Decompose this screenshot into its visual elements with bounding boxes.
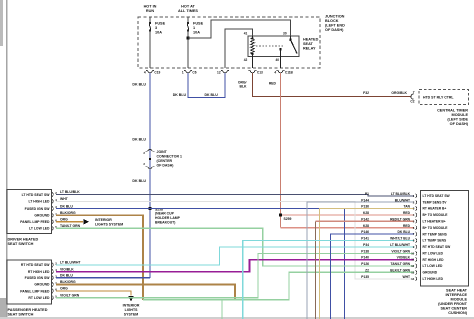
label: passenger heated seat switch bbox=[8, 308, 48, 317]
svg-text:LT TEMP SENS: LT TEMP SENS bbox=[423, 239, 447, 243]
svg-text:VIO/LT GRN: VIO/LT GRN bbox=[60, 293, 80, 297]
svg-text:RED: RED bbox=[403, 211, 411, 215]
svg-text:7: 7 bbox=[413, 90, 415, 94]
svg-text:S258: S258 bbox=[155, 207, 163, 211]
svg-text:2: 2 bbox=[413, 200, 415, 204]
svg-text:LT BLU/BLK: LT BLU/BLK bbox=[391, 192, 411, 196]
svg-text:BLK/ORG: BLK/ORG bbox=[60, 211, 76, 215]
svg-text:(LEFT END: (LEFT END bbox=[325, 24, 345, 28]
svg-text:GROUND: GROUND bbox=[34, 283, 50, 287]
label: driver heated seat switch bbox=[8, 238, 39, 247]
wire ORG: passenger panel lamp feed down to interior lights bbox=[56, 287, 131, 296]
svg-text:RT TEMP SENS: RT TEMP SENS bbox=[423, 232, 448, 236]
svg-text:HOT AT: HOT AT bbox=[181, 5, 195, 9]
wire LT BLU/BLK: driver switch to module pin 1 bbox=[56, 190, 414, 196]
svg-text:P140: P140 bbox=[361, 256, 369, 260]
svg-text:OF DASH): OF DASH) bbox=[325, 28, 344, 32]
svg-text:LIGHTS SYSTEM: LIGHTS SYSTEM bbox=[95, 222, 123, 226]
svg-text:P141: P141 bbox=[361, 237, 369, 241]
svg-text:DK BLU: DK BLU bbox=[60, 274, 73, 278]
svg-text:1: 1 bbox=[413, 194, 415, 198]
svg-text:BLK/LT GRN: BLK/LT GRN bbox=[390, 269, 410, 273]
svg-text:LT HTD SEAT SW: LT HTD SEAT SW bbox=[423, 194, 451, 198]
arrow: interior lights system (passenger) bbox=[123, 296, 140, 317]
svg-text:RELAY: RELAY bbox=[303, 47, 316, 51]
svg-text:LT BLU/WHT: LT BLU/WHT bbox=[60, 261, 81, 265]
module pin 5: RED/LT GRN / LT HEATER B+ bbox=[361, 217, 446, 223]
node S258 bbox=[149, 207, 181, 224]
svg-text:P34: P34 bbox=[363, 243, 369, 247]
svg-text:DK BLU: DK BLU bbox=[132, 83, 146, 87]
module pin 2: BLU/WHT / TEMP SENS 5V bbox=[361, 198, 447, 204]
svg-text:7: 7 bbox=[413, 232, 415, 236]
svg-text:DK BLU: DK BLU bbox=[60, 204, 73, 208]
svg-text:BLK/ORG: BLK/ORG bbox=[60, 280, 76, 284]
svg-text:40: 40 bbox=[275, 58, 279, 62]
node: HOT IN RUN bbox=[144, 5, 157, 13]
wire BLU/WHT: module pin 2 temp sens down off page bbox=[307, 202, 414, 319]
node: HOT AT ALL TIMES bbox=[178, 5, 198, 13]
wire DK BLU: driver switch fused ign to S258 bbox=[56, 204, 150, 208]
svg-text:PASSENGER HEATED: PASSENGER HEATED bbox=[8, 308, 48, 312]
svg-text:P126: P126 bbox=[361, 262, 369, 266]
connector pin 12 bbox=[217, 70, 229, 74]
svg-text:RED: RED bbox=[269, 82, 277, 86]
svg-text:3: 3 bbox=[155, 26, 157, 30]
svg-text:INTERIOR: INTERIOR bbox=[95, 218, 112, 222]
connector pin 7 C2 (central timer module) bbox=[410, 90, 414, 103]
svg-text:INTERIOR: INTERIOR bbox=[123, 304, 140, 308]
svg-text:CENTRAL TIMER: CENTRAL TIMER bbox=[437, 109, 468, 113]
svg-text:OF DASH): OF DASH) bbox=[450, 122, 469, 126]
svg-text:41: 41 bbox=[244, 32, 248, 36]
svg-text:1: 1 bbox=[182, 70, 184, 74]
svg-text:C6: C6 bbox=[192, 70, 196, 74]
svg-text:Z2: Z2 bbox=[365, 269, 369, 273]
svg-text:SEAT CENTER: SEAT CENTER bbox=[440, 307, 467, 311]
module pin 14: WHT / LT HIGH LED bbox=[361, 275, 443, 281]
central timer module (dashed box) bbox=[419, 90, 469, 105]
svg-text:12: 12 bbox=[217, 70, 221, 74]
wire DK BLU loop: pin 1 C6 down, right, up to pin 12 bbox=[173, 73, 225, 98]
svg-text:TAN: TAN bbox=[403, 205, 410, 209]
svg-text:RED/LT GRN: RED/LT GRN bbox=[390, 217, 411, 221]
label: seat heat interface module bbox=[438, 289, 468, 316]
svg-text:LT HIGH LED: LT HIGH LED bbox=[423, 277, 444, 281]
svg-text:TEMP SENS 5V: TEMP SENS 5V bbox=[423, 200, 448, 204]
svg-text:RT LOW LED: RT LOW LED bbox=[28, 296, 50, 300]
svg-text:TAN/LT GRN: TAN/LT GRN bbox=[391, 262, 411, 266]
svg-text:B+ TO MODULE: B+ TO MODULE bbox=[423, 213, 449, 217]
svg-text:BREAKOUT): BREAKOUT) bbox=[155, 221, 175, 225]
svg-text:B+ TO MODULE: B+ TO MODULE bbox=[423, 226, 449, 230]
module pin 3: TAN / RT HEATER B+ bbox=[361, 205, 446, 211]
wire BLK/LT GRN: ground bus to module pin 13 bbox=[143, 272, 414, 299]
wire TAN: module pin 3 RT heater down off page bbox=[320, 209, 415, 319]
fuse F3 (FUSE 3 10A, hot in run) bbox=[149, 17, 166, 35]
svg-text:FUSE: FUSE bbox=[193, 22, 204, 26]
wire DK BLU: S258 feed across to right and down off page bbox=[150, 209, 345, 319]
module pin 13: BLK/LT GRN / GROUND bbox=[365, 269, 438, 275]
svg-text:RT HTD SEAT SW: RT HTD SEAT SW bbox=[21, 263, 50, 267]
joint connector 1 bbox=[143, 150, 182, 169]
wire ORG/BLK: relay coil to central timer module bbox=[238, 73, 411, 97]
svg-text:DK BLU: DK BLU bbox=[132, 138, 146, 142]
svg-text:BLOCK: BLOCK bbox=[325, 19, 339, 23]
svg-text:RT HIGH LED: RT HIGH LED bbox=[423, 258, 445, 262]
svg-text:P135: P135 bbox=[361, 275, 369, 279]
module pin 7: DK BLU / RT TEMP SENS bbox=[361, 230, 447, 236]
svg-text:F32: F32 bbox=[363, 91, 369, 95]
svg-text:42: 42 bbox=[244, 58, 248, 62]
svg-text:RT LOW LED: RT LOW LED bbox=[423, 252, 444, 256]
svg-text:LT BLU/BLK: LT BLU/BLK bbox=[60, 190, 80, 194]
label: central timer module bbox=[437, 109, 469, 127]
arrow: interior lights system (driver) bbox=[84, 218, 124, 227]
passenger switch pin brackets bbox=[52, 262, 57, 300]
svg-text:LIGHTS: LIGHTS bbox=[125, 308, 138, 312]
wire VIO/LT GRN: passenger RT LOW LED to module pin 10 bbox=[56, 253, 414, 297]
svg-text:WHT: WHT bbox=[60, 197, 69, 201]
svg-text:5: 5 bbox=[413, 219, 415, 223]
svg-text:DK BLU: DK BLU bbox=[132, 179, 146, 183]
svg-text:C19: C19 bbox=[154, 70, 160, 74]
svg-text:CUSHION): CUSHION) bbox=[448, 311, 468, 315]
connector pin 1 C6 bbox=[182, 70, 197, 74]
svg-text:HOLDER LAMP: HOLDER LAMP bbox=[155, 216, 181, 220]
svg-text:K28: K28 bbox=[363, 211, 369, 215]
driver switch pin brackets bbox=[52, 191, 57, 230]
wire TAN/LT GRN: driver LT LOW LED to module pin 12 bbox=[56, 224, 414, 266]
fuse F1 (FUSE 1 10A, hot at all times) bbox=[187, 17, 204, 35]
svg-text:C11B: C11B bbox=[285, 70, 294, 74]
svg-text:P138: P138 bbox=[361, 249, 369, 253]
svg-text:10A: 10A bbox=[155, 31, 162, 35]
wire RED: branch to module pin 4 (B+ TO MODULE) bbox=[281, 214, 415, 216]
svg-text:SEAT: SEAT bbox=[303, 42, 314, 46]
wire BLK/ORG: driver switch ground leg bbox=[56, 211, 143, 300]
svg-text:30: 30 bbox=[283, 32, 287, 36]
relay: heated seat relay (box) bbox=[248, 36, 299, 57]
svg-text:S259: S259 bbox=[284, 217, 292, 221]
svg-text:10: 10 bbox=[411, 251, 415, 255]
node S259 bbox=[279, 214, 291, 221]
connector pin 4 C19 bbox=[144, 70, 161, 74]
wire DK BLU: module pin 7 RT temp sens down off page bbox=[331, 234, 415, 319]
module pin 9: LT BLU/WHT / RT HTD SEAT SW bbox=[363, 243, 451, 249]
svg-text:2: 2 bbox=[143, 151, 145, 155]
svg-text:HEATED: HEATED bbox=[303, 38, 319, 42]
svg-text:3: 3 bbox=[413, 207, 415, 211]
svg-text:GROUND: GROUND bbox=[34, 214, 50, 218]
svg-text:(CENTER: (CENTER bbox=[157, 159, 173, 163]
junction block (dashed box) bbox=[138, 17, 320, 68]
svg-text:BLK: BLK bbox=[240, 85, 248, 89]
passenger heated seat switch (box) bbox=[7, 260, 52, 304]
svg-text:10A: 10A bbox=[193, 31, 200, 35]
svg-text:FUSED IGN SW: FUSED IGN SW bbox=[25, 276, 51, 280]
svg-text:WHT/LT BLU: WHT/LT BLU bbox=[390, 237, 411, 241]
svg-text:ORG/BLK: ORG/BLK bbox=[391, 91, 407, 95]
svg-text:LT LOW LED: LT LOW LED bbox=[29, 227, 50, 231]
wire: relay pin 40 to connector C11B bbox=[280, 57, 282, 69]
svg-text:(LEFT SIDE: (LEFT SIDE bbox=[447, 118, 468, 122]
svg-text:1: 1 bbox=[193, 26, 195, 30]
wire: ground stub down off page bbox=[221, 300, 223, 319]
svg-text:ORG: ORG bbox=[60, 287, 68, 291]
svg-text:LT HTD SEAT SW: LT HTD SEAT SW bbox=[22, 193, 51, 197]
module pin 8: WHT/LT BLU / LT TEMP SENS bbox=[361, 237, 447, 243]
wire WHT: driver switch LT HIGH LED to module pin 14 bbox=[56, 197, 414, 279]
svg-text:P144: P144 bbox=[361, 198, 369, 202]
svg-text:2: 2 bbox=[143, 162, 145, 166]
svg-text:6: 6 bbox=[413, 226, 415, 230]
svg-text:RT HTD SEAT SW: RT HTD SEAT SW bbox=[423, 245, 452, 249]
relay pin 42 label bbox=[244, 58, 248, 62]
svg-text:P136: P136 bbox=[361, 205, 369, 209]
wire DK BLU: passenger fused ign to main feed bbox=[56, 274, 150, 278]
svg-text:DK BLU: DK BLU bbox=[173, 93, 187, 97]
svg-text:RT HEATER B+: RT HEATER B+ bbox=[423, 207, 447, 211]
svg-text:GROUND: GROUND bbox=[423, 271, 438, 275]
svg-text:DRIVER HEATED: DRIVER HEATED bbox=[8, 238, 39, 242]
passenger switch pin labels bbox=[20, 263, 50, 300]
svg-text:4: 4 bbox=[144, 70, 146, 74]
svg-text:TAN/LT GRN: TAN/LT GRN bbox=[60, 224, 81, 228]
relay pin 40 label bbox=[275, 58, 279, 62]
wire: fuse 1 output down to pin 1 C6 bbox=[187, 31, 190, 69]
svg-text:9: 9 bbox=[413, 245, 415, 249]
wire WHT/LT BLU: module pin 8 LT temp sens down off page bbox=[243, 241, 414, 319]
svg-text:JOINT: JOINT bbox=[157, 150, 168, 154]
svg-text:OF DASH): OF DASH) bbox=[157, 164, 174, 168]
svg-text:BLU/WHT: BLU/WHT bbox=[395, 198, 410, 202]
svg-text:LT HEATER B+: LT HEATER B+ bbox=[423, 220, 446, 224]
svg-text:RUN: RUN bbox=[146, 9, 154, 13]
svg-text:13: 13 bbox=[411, 271, 415, 275]
svg-text:MODULE: MODULE bbox=[451, 298, 468, 302]
svg-text:K28: K28 bbox=[363, 224, 369, 228]
wire RED: branch to module pin 6 (B+ TO MODULE) bbox=[281, 227, 415, 229]
svg-text:SYSTEM: SYSTEM bbox=[124, 313, 138, 317]
svg-text:INTERFACE: INTERFACE bbox=[445, 293, 467, 297]
svg-text:SEAT SWITCH: SEAT SWITCH bbox=[8, 313, 34, 317]
wire: fuse 1 branch to relay switch pin 30 bbox=[188, 20, 291, 38]
svg-text:C13: C13 bbox=[257, 70, 263, 74]
wire LT BLU/WHT: passenger switch to module pin 9 bbox=[56, 247, 414, 265]
svg-text:P142: P142 bbox=[361, 217, 369, 221]
wire DK BLU: main ignition feed, C19 down to S258 and passenger switch bbox=[132, 73, 150, 278]
svg-text:PANEL LMP FEED: PANEL LMP FEED bbox=[20, 220, 50, 224]
label: junction block bbox=[325, 15, 345, 33]
svg-text:C2: C2 bbox=[410, 100, 414, 104]
svg-text:P146: P146 bbox=[361, 230, 369, 234]
label: heated seat relay bbox=[303, 38, 319, 51]
relay linkage (dashed) bbox=[256, 45, 284, 47]
svg-text:WHT: WHT bbox=[402, 275, 410, 279]
svg-text:DK BLU: DK BLU bbox=[398, 230, 411, 234]
svg-text:LT HIGH LED: LT HIGH LED bbox=[28, 200, 50, 204]
svg-text:4: 4 bbox=[413, 213, 415, 217]
svg-text:PANEL LMP FEED: PANEL LMP FEED bbox=[20, 289, 50, 293]
svg-text:VIO/BLK: VIO/BLK bbox=[397, 256, 411, 260]
relay switch arm bbox=[279, 36, 297, 57]
svg-text:LT LOW LED: LT LOW LED bbox=[423, 264, 444, 268]
wire: relay coil pin 42 to connector C13 bbox=[252, 57, 254, 69]
svg-text:JUNCTION: JUNCTION bbox=[325, 15, 345, 19]
wire BLK/ORG: passenger ground leg bbox=[56, 280, 235, 300]
wire VIO/BLK: passenger RT HIGH LED to module pin 11 bbox=[56, 260, 414, 272]
module pin 4: RED / B+ TO MODULE bbox=[363, 211, 448, 217]
relay coil bbox=[251, 36, 255, 57]
svg-text:SEAT HEAT: SEAT HEAT bbox=[446, 289, 468, 293]
wire ORG: driver panel lamp feed to interior lights system bbox=[56, 218, 83, 222]
svg-text:RED: RED bbox=[403, 224, 411, 228]
svg-text:12: 12 bbox=[411, 264, 415, 268]
svg-text:FUSE: FUSE bbox=[155, 22, 166, 26]
relay pin 41 label bbox=[244, 32, 248, 36]
wire: junction block pin 12 up and over to relay coil pin 41 bbox=[225, 29, 253, 68]
module pin 10: VIO/LT GRN / RT LOW LED bbox=[361, 249, 443, 255]
module pin 1: LT BLU/BLK / LT HTD SEAT SW bbox=[365, 192, 451, 198]
svg-text:(UNDER FRONT: (UNDER FRONT bbox=[438, 302, 468, 306]
svg-text:P1: P1 bbox=[365, 192, 369, 196]
wire RED: relay output down to S259 and module B+ rows bbox=[269, 73, 281, 228]
svg-text:VIO/LT GRN: VIO/LT GRN bbox=[391, 249, 410, 253]
wire: fuse 3 output down to pin C19 bbox=[149, 31, 151, 69]
connector pin 4 C11B bbox=[274, 70, 293, 74]
module pin 6: RED / B+ TO MODULE bbox=[363, 224, 448, 230]
module pin 12: TAN/LT GRN / LT LOW LED bbox=[361, 262, 443, 268]
svg-text:CONNECTOR 1: CONNECTOR 1 bbox=[157, 155, 182, 159]
svg-text:HOT IN: HOT IN bbox=[144, 5, 157, 9]
driver heated seat switch (box) bbox=[7, 190, 52, 234]
svg-text:FUSED IGN SW: FUSED IGN SW bbox=[25, 207, 51, 211]
seat heat interface module (connector box) bbox=[421, 191, 469, 287]
svg-text:HTD ST RLY CTRL: HTD ST RLY CTRL bbox=[423, 96, 454, 100]
wire RED/LT GRN: module pin 5 LT heater down off page bbox=[316, 221, 415, 319]
svg-text:ORG: ORG bbox=[60, 218, 68, 222]
svg-text:11: 11 bbox=[411, 258, 414, 262]
svg-text:RT HIGH LED: RT HIGH LED bbox=[28, 270, 50, 274]
svg-text:LT BLU/WHT: LT BLU/WHT bbox=[390, 243, 410, 247]
svg-text:14: 14 bbox=[411, 277, 415, 281]
connector pin C13 bbox=[248, 70, 263, 74]
svg-text:8: 8 bbox=[413, 239, 415, 243]
module pin 11: VIO/BLK / RT HIGH LED bbox=[361, 256, 444, 262]
relay pin 30 label bbox=[283, 32, 287, 36]
svg-text:SEAT SWITCH: SEAT SWITCH bbox=[8, 242, 34, 246]
svg-text:ALL TIMES: ALL TIMES bbox=[178, 9, 198, 13]
svg-text:VIO/BLK: VIO/BLK bbox=[60, 267, 74, 271]
svg-text:4: 4 bbox=[274, 70, 276, 74]
svg-text:MODULE: MODULE bbox=[452, 113, 469, 117]
svg-text:DK BLU: DK BLU bbox=[205, 93, 219, 97]
svg-text:(NEAR CUP: (NEAR CUP bbox=[155, 212, 175, 216]
driver switch pin labels bbox=[20, 193, 50, 231]
